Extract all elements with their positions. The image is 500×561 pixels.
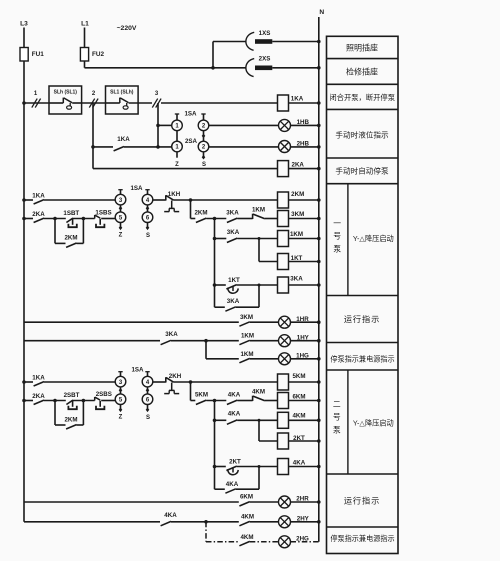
connector mark 3 xyxy=(152,99,157,108)
junction latch right p2 xyxy=(82,399,86,403)
svg-text:6KM: 6KM xyxy=(240,494,253,501)
wire 1SBT to 1SBS xyxy=(73,218,95,220)
relay coil 3KM xyxy=(278,211,289,227)
svg-text:2KA: 2KA xyxy=(32,393,45,400)
selector p2 terminal 5 xyxy=(115,394,126,405)
wire to socket 1XS xyxy=(213,41,246,43)
junction 2KM coil row xyxy=(189,198,193,202)
svg-text:2SBS: 2SBS xyxy=(96,391,112,398)
contact 6KM xyxy=(239,502,249,506)
svg-text:SL1 (SLh): SL1 (SLh) xyxy=(110,89,134,95)
svg-text:2KM: 2KM xyxy=(194,210,207,217)
svg-text:3KA: 3KA xyxy=(165,331,178,338)
lamp 1HB xyxy=(279,119,291,131)
junction N row 2HY xyxy=(317,520,321,524)
svg-text:闭合开泵，断开停泵: 闭合开泵，断开停泵 xyxy=(329,93,395,102)
wire tap riser x158 xyxy=(157,103,159,147)
lamp 1HY xyxy=(279,335,291,347)
junction 4KA latch tap xyxy=(258,465,261,468)
junction N row 2KM xyxy=(317,198,321,202)
wire to 1KM coil xyxy=(237,238,277,240)
svg-text:3KA: 3KA xyxy=(227,298,240,305)
lamp 2HY xyxy=(279,516,291,528)
wire 3KM lamp row xyxy=(24,321,239,323)
wire 2KA coil to N xyxy=(289,168,319,170)
wire 4KA lamp row xyxy=(24,521,160,523)
svg-text:Y-△降压启动: Y-△降压启动 xyxy=(353,234,394,243)
selector p1 terminal 5 xyxy=(115,212,126,223)
wire lamp 1HG to N xyxy=(291,358,319,360)
junction 1KT tap xyxy=(258,237,261,240)
selector p1 stem t4 xyxy=(147,190,149,195)
svg-text:S: S xyxy=(146,415,150,421)
wire 1KH to junction xyxy=(174,199,191,201)
wire dashed to lamp 2HG xyxy=(250,541,279,543)
contact 3KA row1 p1 xyxy=(227,218,237,222)
svg-text:1XS: 1XS xyxy=(259,30,271,37)
junction N bus xyxy=(317,101,321,105)
junction sub-bus 1KM row xyxy=(213,237,217,241)
junction sub-bus top p1 xyxy=(213,217,217,221)
relay coil 1KM xyxy=(278,231,289,247)
socket 1XS xyxy=(246,32,254,50)
svg-text:2KA: 2KA xyxy=(292,162,305,169)
wire 1KT coil to N xyxy=(289,261,319,263)
wire bus seg B xyxy=(82,102,106,104)
wire 5KM coil to N xyxy=(289,381,319,383)
wire to socket 2XS xyxy=(213,67,246,69)
selector 2SA terminal 2 xyxy=(198,141,209,152)
svg-text:6KM: 6KM xyxy=(292,394,305,401)
wire lamp 2HY to N xyxy=(291,521,319,523)
contact 1KM lamp row 1 xyxy=(239,340,249,344)
svg-text:1SA: 1SA xyxy=(131,367,144,374)
contact 4KM lamp row 2 xyxy=(239,541,249,545)
relay coil 6KM xyxy=(278,393,289,409)
wire tap to coil 2KA xyxy=(93,168,278,170)
wire 6KM lamp row xyxy=(24,501,239,503)
svg-text:2KM: 2KM xyxy=(64,235,77,242)
wire 1KT contact to 3KA coil xyxy=(237,284,278,286)
junction 2KT tap xyxy=(258,419,261,422)
junction N row 4KA xyxy=(317,465,321,469)
svg-text:4KA: 4KA xyxy=(164,512,177,519)
selector p2 stem t3 xyxy=(120,372,122,377)
wire jumper t3-t5 p2 xyxy=(120,387,122,394)
wire t4 to 1KH xyxy=(153,199,166,201)
junction N row 1HG xyxy=(317,357,321,361)
svg-text:1KA: 1KA xyxy=(32,375,45,382)
selector p2 terminal 6 xyxy=(142,394,153,405)
junction sub-bus 2KT row xyxy=(213,465,217,469)
wire 1KA to selector t3 p1 xyxy=(44,199,115,201)
svg-text:3KA: 3KA xyxy=(290,276,303,283)
wire lamp 1HR to N xyxy=(291,321,319,323)
svg-text:4KA: 4KA xyxy=(226,481,239,488)
junction N row 2KA xyxy=(317,167,321,171)
svg-text:FU1: FU1 xyxy=(32,51,45,58)
selector 2SA pointer left xyxy=(176,152,178,158)
junction N row 1KM xyxy=(317,237,321,241)
relay coil 5KM xyxy=(278,374,289,390)
svg-text:3KA: 3KA xyxy=(226,210,239,217)
svg-text:泵: 泵 xyxy=(333,425,341,434)
lamp 2HB xyxy=(279,141,291,153)
connector mark 1 xyxy=(32,99,37,108)
wire 4KA to 4KM NC xyxy=(237,400,252,402)
svg-text:运行指示: 运行指示 xyxy=(344,496,380,506)
junction N row 1HB xyxy=(317,124,321,128)
relay coil 2KA xyxy=(278,161,289,177)
contact 4KM NC xyxy=(252,396,254,401)
svg-text:手动时自动停泵: 手动时自动停泵 xyxy=(335,165,389,175)
socket 2XS xyxy=(246,59,254,77)
wire 1KA contact to selector xyxy=(124,146,172,148)
svg-text:1KM: 1KM xyxy=(241,333,254,340)
svg-text:运行指示: 运行指示 xyxy=(344,314,380,324)
timer coil 1KT xyxy=(278,254,289,270)
wire to 4KM coil xyxy=(237,419,277,421)
relay coil 3KA xyxy=(278,277,289,293)
selector p1 terminal 6 xyxy=(142,212,153,223)
wire 2SBS to selector t5 p2 xyxy=(101,400,115,402)
float switch box SLh(SL1) xyxy=(49,86,82,114)
wire jumper t4-t6 p2 xyxy=(147,387,149,394)
fuse FU2 xyxy=(80,48,88,62)
pushbutton 2SBT xyxy=(66,400,73,404)
selector p1 pointer t6 xyxy=(147,223,149,227)
contact 4KA lamp row xyxy=(161,521,171,525)
wire 4KM coil to N xyxy=(289,419,319,421)
wire N neutral rail xyxy=(318,17,320,542)
svg-text:停泵指示兼电源指示: 停泵指示兼电源指示 xyxy=(330,534,394,543)
wire jumper 1SA-2SA left xyxy=(176,131,178,142)
junction N row 2XS xyxy=(317,66,321,70)
wire to lamp 2HY xyxy=(250,521,279,523)
selector p1 terminal 4 xyxy=(142,194,153,205)
svg-text:1KM: 1KM xyxy=(252,207,265,214)
function table frame xyxy=(327,36,399,553)
svg-text:1KH: 1KH xyxy=(168,191,181,198)
svg-text:4KM: 4KM xyxy=(240,534,253,541)
svg-text:2SA: 2SA xyxy=(185,138,198,145)
svg-text:1KT: 1KT xyxy=(228,277,240,284)
timer contact 1KT xyxy=(215,284,226,286)
pushbutton 2SBS xyxy=(94,397,96,401)
svg-text:5KM: 5KM xyxy=(292,373,305,380)
svg-text:1KM: 1KM xyxy=(290,231,303,238)
svg-text:2SBT: 2SBT xyxy=(64,392,80,399)
thermal contact 2KH xyxy=(165,377,167,382)
lamp 2HR xyxy=(279,496,291,508)
svg-text:2KM: 2KM xyxy=(291,191,304,198)
junction N row 2KT xyxy=(317,439,321,443)
wire lamp 1HY to N xyxy=(291,340,319,342)
wire 4KA coil to N xyxy=(289,466,319,468)
wire 1KA to selector t3 p2 xyxy=(44,381,115,383)
junction N row 2HR xyxy=(317,500,321,504)
junction N row 6KM xyxy=(317,399,321,403)
relay coil 2KM xyxy=(278,192,289,208)
latch branch 2KM p1 xyxy=(54,219,56,244)
junction latch left p2 xyxy=(53,399,57,403)
relay coil 4KM xyxy=(278,412,289,428)
contact 3KA lamp row xyxy=(161,340,171,344)
wire 1SBS to selector t5 xyxy=(101,218,115,220)
junction rail 1KA row p2 xyxy=(22,380,26,384)
svg-text:4KA: 4KA xyxy=(228,411,241,418)
svg-text:S: S xyxy=(202,162,206,168)
junction N row 1KT xyxy=(317,260,321,264)
svg-text:2KT: 2KT xyxy=(229,459,241,466)
wire left control rail xyxy=(23,103,25,522)
junction N row 2HB xyxy=(317,145,321,149)
svg-text:4KM: 4KM xyxy=(252,389,265,396)
contact 4KA row2 p2 xyxy=(215,419,227,421)
svg-text:1SBT: 1SBT xyxy=(63,210,79,217)
wire 5KM contact to bus xyxy=(206,400,226,402)
junction riser row 1SA xyxy=(156,124,160,128)
contact 1KM NC xyxy=(252,214,254,219)
float switch box SL1(SLh) xyxy=(106,86,139,114)
junction N row 5KM xyxy=(317,380,321,384)
junction latch right p1 xyxy=(82,217,86,221)
relay coil 1KA xyxy=(278,95,289,111)
wire 3KA coil to N xyxy=(289,284,319,286)
svg-text:4KA: 4KA xyxy=(228,392,241,399)
junction sub-bus top p2 xyxy=(213,399,217,403)
wire 3KM coil to N xyxy=(289,218,319,220)
wire 2KM coil to N xyxy=(289,199,319,201)
lamp 1HG xyxy=(279,353,291,365)
contact 2KM p1 xyxy=(196,218,206,222)
svg-text:1SBS: 1SBS xyxy=(95,210,111,217)
wire to 1SA terminal 1 xyxy=(158,124,172,126)
wire to 6KM coil xyxy=(265,400,278,402)
selector p2 terminal 4 xyxy=(142,376,153,387)
wire to lamp 1HR xyxy=(250,321,279,323)
wire bus seg C xyxy=(161,102,278,104)
selector 1SA terminal 2 xyxy=(198,120,209,131)
selector 1SA terminal 1 xyxy=(172,120,183,131)
junction N row 4KM xyxy=(317,419,321,423)
junction rail 2KA row p1 xyxy=(22,217,26,221)
wire tap riser x93 xyxy=(92,103,94,169)
svg-text:SLh (SL1): SLh (SL1) xyxy=(54,89,78,95)
svg-text:停泵指示兼电源指示: 停泵指示兼电源指示 xyxy=(330,355,394,364)
selector p2 pointer t5 xyxy=(120,405,122,409)
svg-text:1KM: 1KM xyxy=(240,351,253,358)
junction lamp rows p2 xyxy=(204,520,208,524)
wire 4KA contact to junction xyxy=(171,521,239,523)
thermal contact 1KH xyxy=(165,195,167,200)
svg-text:S: S xyxy=(146,233,150,239)
wire sub-bus p2 xyxy=(214,401,216,490)
svg-text:3KM: 3KM xyxy=(291,211,304,218)
junction 5KM coil row xyxy=(189,380,193,384)
svg-text:1KA: 1KA xyxy=(32,193,45,200)
junction tap 1KA contact row xyxy=(91,145,95,149)
svg-text:泵: 泵 xyxy=(333,244,341,253)
svg-text:4KM: 4KM xyxy=(292,413,305,420)
wire dashed drop 2HG row xyxy=(205,522,207,542)
svg-text:号: 号 xyxy=(333,232,341,241)
selector p1 pointer t5 xyxy=(120,223,122,227)
svg-text:1SA: 1SA xyxy=(184,111,197,118)
selector p2 stem t4 xyxy=(147,372,149,377)
wire L3 phase drop xyxy=(23,28,25,104)
contact 2KA p2 xyxy=(24,400,33,402)
contact 3KA row2 p1 xyxy=(215,238,227,240)
svg-text:5KM: 5KM xyxy=(195,392,208,399)
wire to 5KM coil xyxy=(191,381,278,383)
wire drop 1HG row xyxy=(205,341,207,359)
latch branch 2KM p2 xyxy=(54,401,56,426)
svg-text:2KH: 2KH xyxy=(169,373,182,380)
wire 2KT contact to 4KA coil xyxy=(237,466,278,468)
wire t4 to 2KH xyxy=(153,381,166,383)
junction N row 3KA xyxy=(317,283,321,287)
svg-text:Z: Z xyxy=(119,415,123,421)
contact 4KM lamp row 1 xyxy=(239,521,249,525)
lamp 2HG xyxy=(279,536,291,548)
wire 2KA to 2SBT xyxy=(44,400,66,402)
svg-text:3KA: 3KA xyxy=(227,229,240,236)
junction N row 1XS xyxy=(317,40,321,44)
pushbutton 1SBS xyxy=(94,215,96,219)
wire 2SBT to 2SBS xyxy=(73,400,95,402)
junction socket branch xyxy=(211,66,215,70)
contact 1KA p1 xyxy=(24,199,33,201)
svg-text:4KA: 4KA xyxy=(293,460,306,467)
wire jumper 1SA-2SA right xyxy=(203,131,205,142)
selector p1 terminal 3 xyxy=(115,194,126,205)
relay coil 4KA xyxy=(278,459,289,475)
pushbutton 1SBT xyxy=(66,218,73,222)
wire drop to 2KM contact xyxy=(190,200,192,219)
wire to lamp 2HR xyxy=(250,501,279,503)
wire 3KA lamp row xyxy=(24,340,160,342)
junction N row 1HR xyxy=(317,320,321,324)
float switch SL1 contact xyxy=(106,102,120,104)
selector p2 terminal 3 xyxy=(115,376,126,387)
svg-text:1KA: 1KA xyxy=(291,96,304,103)
wire lamp 2HR to N xyxy=(291,501,319,503)
contact 1KA p2 xyxy=(24,381,33,383)
wire 3KA contact to junction xyxy=(171,340,239,342)
wire 3KA latch up xyxy=(236,306,259,308)
svg-text:4KM: 4KM xyxy=(241,514,254,521)
selector 2SA pointer right xyxy=(203,152,205,156)
svg-text:手动时液位指示: 手动时液位指示 xyxy=(335,129,389,139)
contact 5KM p2 xyxy=(196,400,206,404)
selector 1SA stem left xyxy=(176,114,178,120)
junction rail 1KA row p1 xyxy=(22,198,26,202)
wire 1SA t2 to lamp 1HB xyxy=(209,124,279,126)
contact 3KM xyxy=(239,322,249,326)
junction lamp rows p1 xyxy=(204,339,208,343)
wire 1KA coil to N xyxy=(289,102,319,104)
svg-text:Z: Z xyxy=(119,233,123,239)
junction rail 2KA row p2 xyxy=(22,399,26,403)
selector 1SA stem right xyxy=(203,114,205,120)
wire socket branch riser xyxy=(212,42,214,68)
junction latch left p1 xyxy=(53,217,57,221)
timer coil 2KT xyxy=(278,433,289,449)
wire tap to 2KT coil xyxy=(258,420,260,441)
svg-text:~220V: ~220V xyxy=(117,25,137,32)
wire 1KM coil to N xyxy=(289,238,319,240)
svg-text:Z: Z xyxy=(175,162,179,168)
wire tap to 1KT coil xyxy=(258,239,260,262)
connector mark 2 xyxy=(89,99,94,108)
contact 1KM lamp row 2 xyxy=(239,358,249,362)
selector 2SA terminal 1 xyxy=(172,141,183,152)
wire dashed lamp 2HG to N xyxy=(291,541,319,543)
selector p2 pointer t6 xyxy=(147,405,149,409)
contact 1KA (indication) xyxy=(93,146,113,148)
latch contact 4KA xyxy=(215,488,225,490)
wire FU2 to socket branch xyxy=(85,67,214,69)
wire 2KT coil to N xyxy=(289,440,319,442)
junction sub-bus 1KT row xyxy=(213,283,217,287)
wire lamp 1HB to N xyxy=(291,124,319,126)
svg-text:N: N xyxy=(319,9,324,16)
junction riser row 2SA xyxy=(156,145,160,149)
wire 2KM contact to bus xyxy=(206,218,226,220)
wire L1 phase drop xyxy=(84,28,86,68)
wire 6KM coil to N xyxy=(289,400,319,402)
wire sub-bus p1 xyxy=(214,219,216,308)
contact 4KA row1 p2 xyxy=(227,400,237,404)
wire jumper t4-t6 xyxy=(147,205,149,212)
svg-text:Y-△降压启动: Y-△降压启动 xyxy=(353,418,394,427)
svg-text:二: 二 xyxy=(333,400,341,409)
contact 2KA p1 xyxy=(24,218,33,220)
wire 3KA to 1KM NC xyxy=(237,218,252,220)
svg-text:一: 一 xyxy=(333,219,341,228)
svg-text:2KA: 2KA xyxy=(32,211,45,218)
svg-text:L1: L1 xyxy=(81,21,89,28)
wire bus seg A xyxy=(24,102,49,104)
latch contact 3KA xyxy=(215,306,225,308)
svg-text:2XS: 2XS xyxy=(259,56,271,63)
fuse FU1 xyxy=(20,48,28,62)
junction N row 3KM xyxy=(317,217,321,221)
wire jumper t3-t5 xyxy=(120,205,122,212)
float switch SLh contact xyxy=(49,102,63,104)
wire to 2KM coil xyxy=(191,199,278,201)
junction sub-bus 4KM row xyxy=(213,419,217,423)
wire to lamp 1HY xyxy=(250,340,279,342)
junction N row 1HY xyxy=(317,339,321,343)
svg-text:3KM: 3KM xyxy=(240,314,253,321)
wire socket 2XS to N xyxy=(272,67,319,69)
wire 2KA to 1SBT xyxy=(44,218,66,220)
selector p1 stem t3 xyxy=(120,190,122,195)
svg-text:号: 号 xyxy=(333,413,341,422)
svg-text:L3: L3 xyxy=(20,21,28,28)
junction left rail / bus xyxy=(22,101,26,105)
wire to 3KM coil xyxy=(265,218,278,220)
svg-text:检修插座: 检修插座 xyxy=(346,66,378,76)
wire socket 1XS to N xyxy=(272,41,319,43)
wire 2KH to junction xyxy=(174,381,191,383)
svg-text:1SA: 1SA xyxy=(130,185,143,192)
wire drop to 5KM contact xyxy=(190,382,192,401)
svg-text:FU2: FU2 xyxy=(92,51,105,58)
svg-text:照明插座: 照明插座 xyxy=(346,43,378,53)
